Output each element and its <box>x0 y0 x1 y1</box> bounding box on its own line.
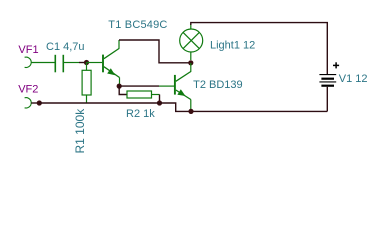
resistor R2 1k <box>119 86 159 120</box>
wire VF1 to C1 <box>31 62 55 64</box>
node A junction dot <box>84 60 89 65</box>
transistor T1 BC549C <box>103 19 168 86</box>
node VF2 junction dot <box>37 100 42 105</box>
svg-text:R2 1k: R2 1k <box>126 108 155 120</box>
svg-text:VF1: VF1 <box>18 44 38 56</box>
svg-text:Light1 12: Light1 12 <box>210 40 255 52</box>
svg-text:C1 4,7u: C1 4,7u <box>46 41 85 53</box>
transistor T2 BD139 <box>175 63 243 111</box>
node lamp bottom junction <box>188 60 193 65</box>
svg-text:T2 BD139: T2 BD139 <box>193 79 243 91</box>
wire C1 lead <box>63 62 79 64</box>
node R2 bottom junction <box>157 100 162 105</box>
capacitor C1 <box>46 41 85 72</box>
port VF1 <box>18 44 38 68</box>
node T2 emitter junction <box>188 109 193 114</box>
wire lamp top to top rail and down to battery <box>191 23 327 75</box>
battery V1 12 <box>319 62 367 85</box>
resistor R1 <box>73 63 91 154</box>
port VF2 <box>18 83 38 108</box>
wire T1 emitter to T2 base <box>119 85 159 87</box>
svg-text:R1 100k: R1 100k <box>73 108 87 154</box>
node T1 emitter junction <box>117 84 122 89</box>
wire T1 collector to lamp bottom node <box>119 40 191 63</box>
wire battery bottom to bottom rail <box>326 87 328 112</box>
lamp Light1 12 <box>180 24 256 60</box>
wire VF2 rail to bottom rail <box>39 103 327 111</box>
wire node A to T1 base <box>87 62 103 64</box>
wire VF2 to node <box>31 102 39 104</box>
svg-text:V1 12: V1 12 <box>339 73 368 85</box>
svg-text:T1 BC549C: T1 BC549C <box>108 19 167 31</box>
svg-text:VF2: VF2 <box>18 83 38 95</box>
T2 base lead <box>159 85 174 87</box>
wire to node A <box>79 62 87 64</box>
